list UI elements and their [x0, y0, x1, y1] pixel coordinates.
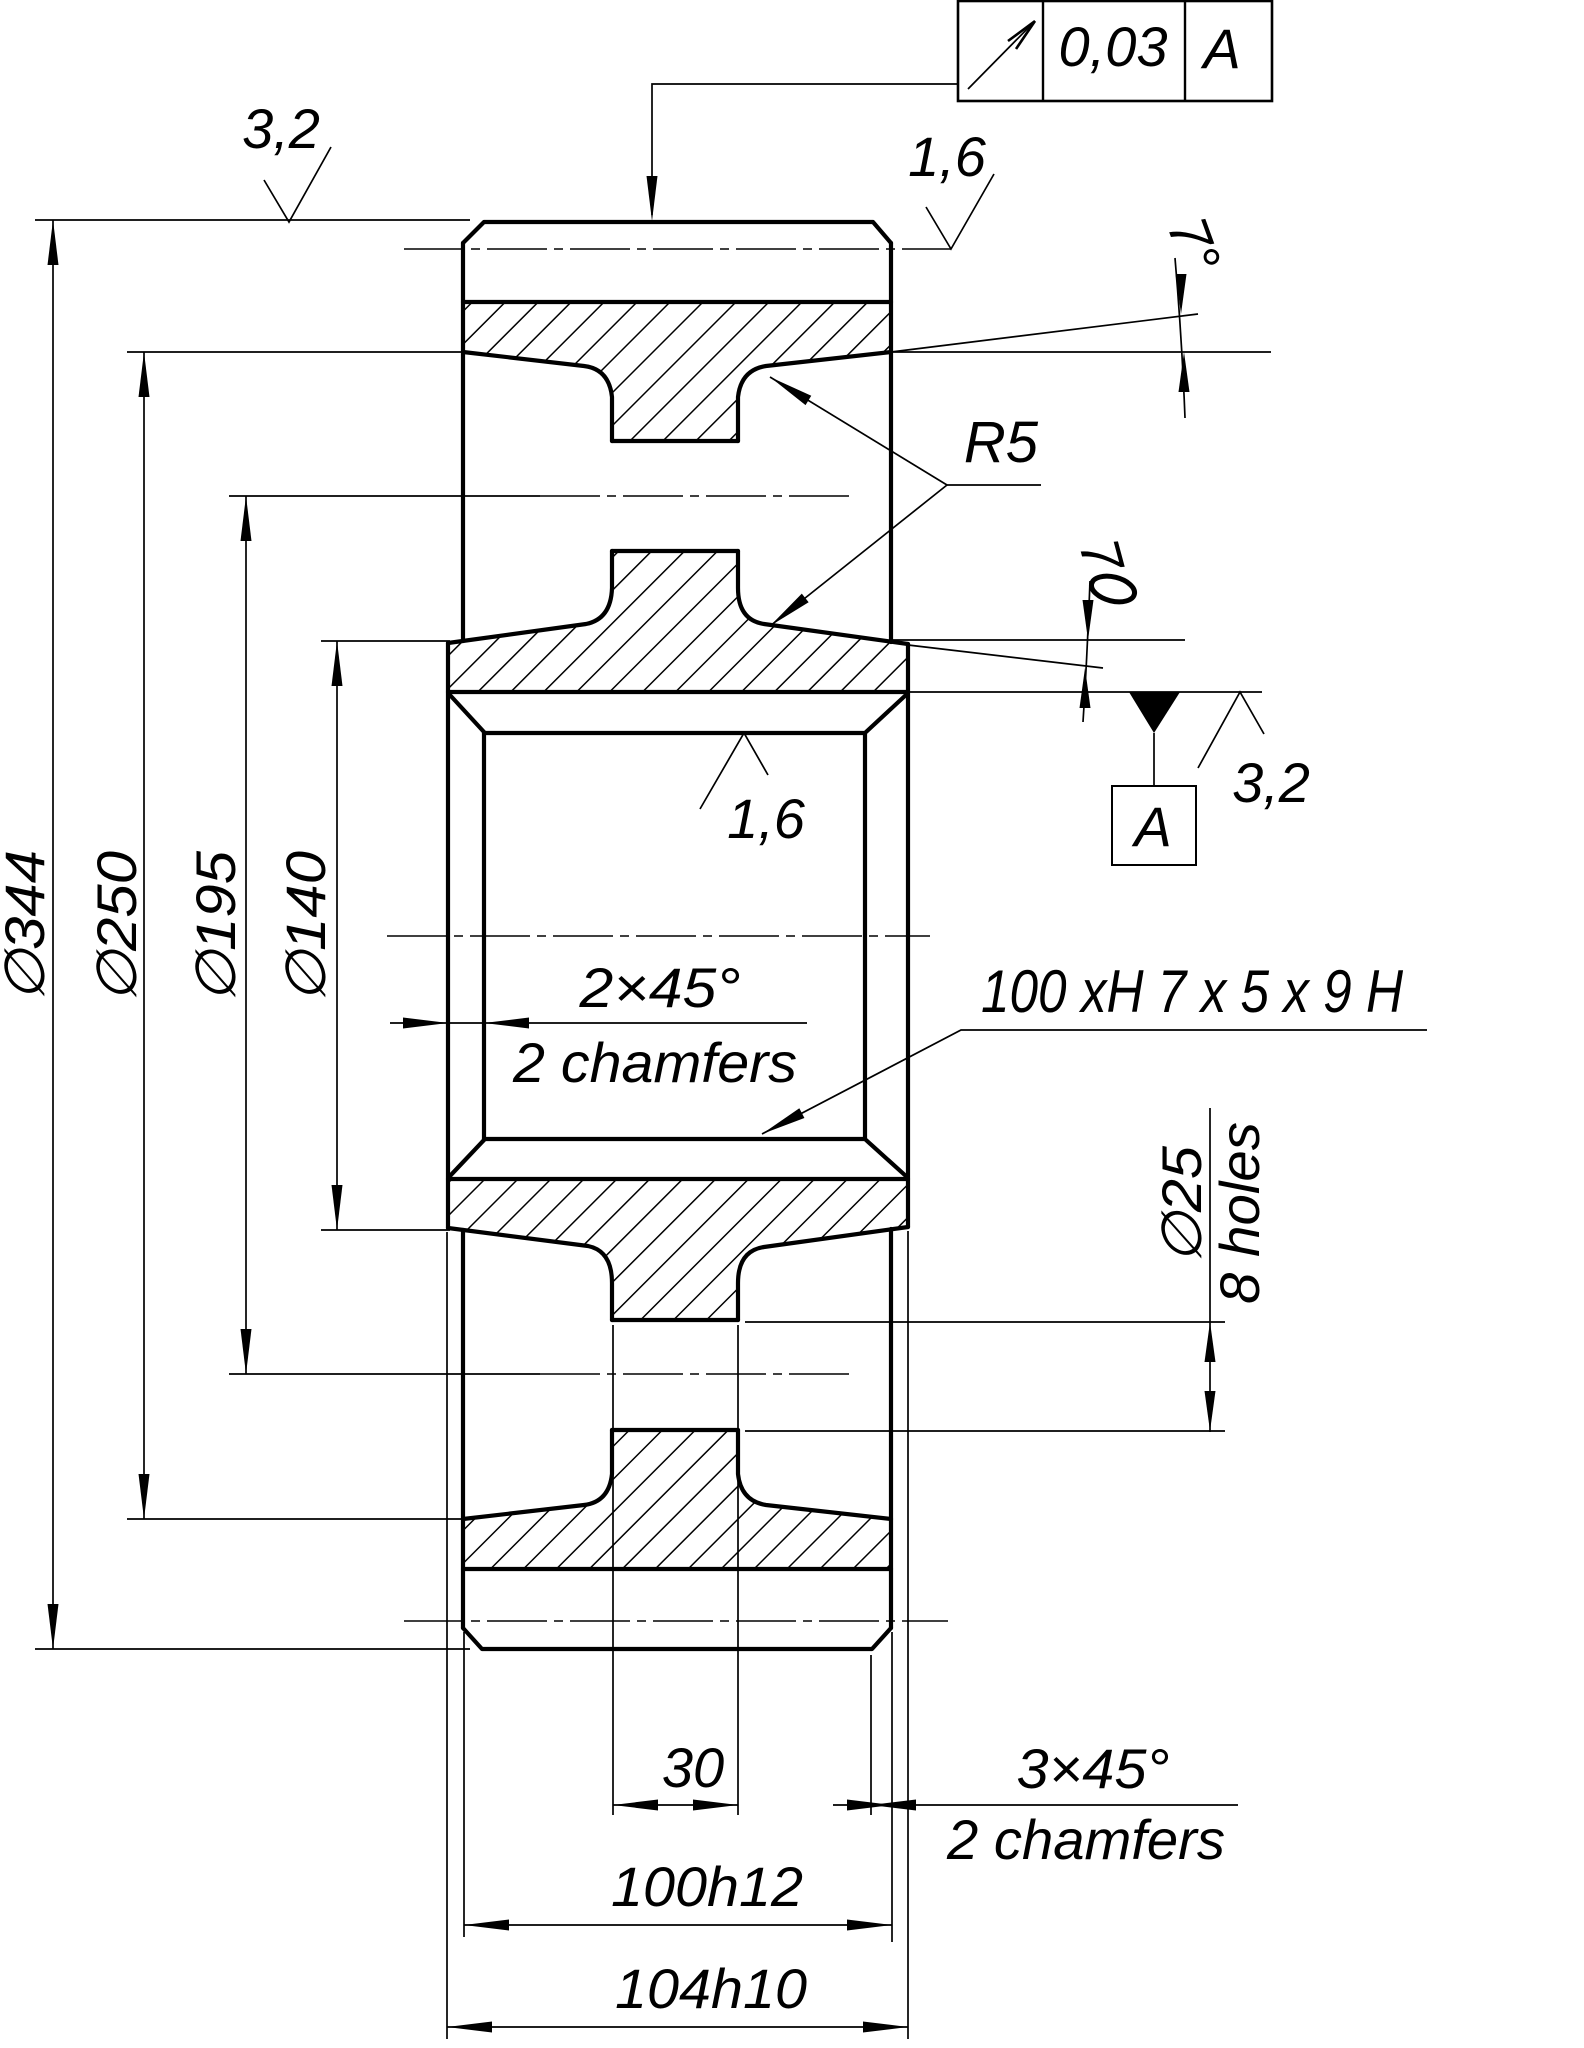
upper lightening hole bottom edge [612, 549, 738, 553]
7deg lower angle: cone extension line [908, 645, 1103, 668]
svg-text:∅25: ∅25 [1150, 1145, 1213, 1264]
lower hole axis solid extension [229, 1373, 540, 1375]
main wheel axis [387, 935, 930, 937]
d250 dimension line [143, 352, 145, 1519]
datum reference surface line [908, 691, 1262, 693]
7deg upper angle: cone extension line [891, 314, 1198, 352]
svg-text:A: A [1200, 17, 1240, 80]
pitch line of lower tooth [404, 1620, 948, 1622]
rim left face upper [461, 243, 465, 641]
arrow d250 top [139, 352, 150, 397]
d25 dimension line [1209, 1108, 1211, 1432]
arrow 7deg upper on cone line [1176, 274, 1187, 314]
svg-text:30: 30 [662, 1736, 724, 1799]
d195 dimension line [245, 496, 247, 1374]
svg-text:∅344: ∅344 [0, 850, 56, 1002]
d344 top extension line [35, 219, 470, 221]
bore end wall left [482, 733, 486, 1139]
lower lightening hole bottom edge [612, 1428, 738, 1432]
lower hole axis / d195 extension dashed part [540, 1373, 852, 1375]
datum letter box [1112, 786, 1196, 865]
web left wall lower with R5 fillet into rim undercut cone [463, 1430, 612, 1519]
d25 extension line lower [745, 1430, 1225, 1432]
web left wall with R5 fillet into hub cone left [448, 551, 612, 643]
d140 bottom extension line [321, 1229, 450, 1231]
arrow 30 left [613, 1800, 658, 1811]
bore chamfer upper left [449, 694, 484, 732]
spline designation leader [762, 1030, 1427, 1134]
upper lightening hole top edge [612, 439, 738, 443]
feature control frame (circular runout 0,03 A) [958, 1, 1272, 101]
svg-text:1,6: 1,6 [908, 125, 987, 188]
arrow spline leader [759, 1108, 804, 1139]
svg-text:100h12: 100h12 [611, 1855, 803, 1918]
104h10 extension line right [907, 1231, 909, 2039]
d250 bottom extension line [127, 1518, 463, 1520]
arrow 3x45 crossing right [847, 1800, 892, 1811]
svg-text:0,03: 0,03 [1059, 15, 1168, 78]
arrow d195 bottom [241, 1329, 252, 1374]
svg-text:104h10: 104h10 [615, 1957, 807, 2020]
runout symbol open arrowhead [1008, 21, 1035, 49]
lower lightening hole top edge [612, 1318, 738, 1322]
spline major diameter line upper [448, 690, 908, 694]
svg-text:8 holes: 8 holes [1208, 1122, 1271, 1304]
rim undercut cone right upper with R5 fillet into web [738, 352, 891, 441]
arrow 104h10 right [863, 2022, 908, 2033]
arrow d195 top [241, 496, 252, 541]
roughness check 3,2 on hub face line [1198, 692, 1264, 768]
arrow d25 bottom [1205, 1391, 1216, 1431]
svg-text:3×45°: 3×45° [1017, 1737, 1170, 1800]
roughness check 3,2 on tooth tip extension [264, 147, 331, 222]
R5 leader shoulder [947, 484, 1041, 486]
arrow d250 bottom [139, 1474, 150, 1519]
3x45 chamfer extension line [870, 1655, 872, 1815]
7deg lower angle: dimension arc [1083, 581, 1090, 722]
svg-text:100 xH 7 x 5 x 9 H: 100 xH 7 x 5 x 9 H [981, 958, 1404, 1025]
hub right face [906, 644, 910, 1227]
upper hole axis / d195 extension dashed part [540, 495, 855, 497]
svg-text:∅140: ∅140 [274, 851, 337, 1003]
hub cone right lower with R5 fillet into web [738, 1227, 908, 1320]
arrow d140 bottom [332, 1185, 343, 1230]
arrow 3x45 crossing left [871, 1800, 916, 1811]
arrow d25 top [1205, 1322, 1216, 1362]
7deg lower angle: horizontal reference line [893, 639, 1185, 641]
section hatching: lower rim ring and web below lower hole [463, 1430, 891, 1569]
d140 top extension line [321, 640, 450, 642]
center lines [387, 249, 951, 1621]
spline bore top surface [484, 731, 865, 735]
arrow 2x45 left [403, 1018, 448, 1029]
web width 30 extension line left [612, 1325, 614, 1815]
datum filled triangle [1129, 692, 1180, 733]
bore end wall right [863, 733, 867, 1139]
arrow 7deg lower on reference line [1083, 600, 1094, 640]
frame border [958, 1, 1272, 101]
d25 extension line upper [745, 1321, 1225, 1323]
svg-text:3,2: 3,2 [242, 97, 320, 160]
arrow d344 top [48, 220, 59, 265]
svg-text:2×45°: 2×45° [578, 956, 740, 1019]
d250 top extension line [127, 351, 463, 353]
arrow 104h10 left [447, 2022, 492, 2033]
datum feature A [908, 692, 1262, 865]
spline major diameter line lower [448, 1177, 908, 1181]
100h12 dimension line [464, 1924, 892, 1926]
pitch line of upper tooth [404, 248, 951, 250]
bore chamfer upper right [866, 694, 907, 732]
arrow R5 lower fillet [767, 594, 809, 631]
frame divider 1 [1042, 1, 1044, 101]
arrow R5 upper fillet [767, 372, 811, 405]
arrow d344 bottom [48, 1604, 59, 1649]
arrow runout leader [647, 176, 658, 221]
upper hole axis solid extension [229, 495, 540, 497]
104h10 extension line left [446, 1232, 448, 2039]
svg-text:∅195: ∅195 [184, 850, 247, 1003]
7deg upper angle: horizontal reference line [891, 351, 1271, 353]
svg-text:A: A [1131, 795, 1171, 858]
rim right face upper [889, 243, 893, 642]
web right wall with R5 fillet into hub cone right [738, 551, 908, 644]
svg-text:∅250: ∅250 [85, 851, 148, 1003]
hub cone left lower with R5 fillet into web [448, 1228, 612, 1320]
R5 leader to lower fillet [770, 485, 947, 626]
svg-text:R5: R5 [964, 410, 1039, 475]
rim undercut cone left upper with R5 fillet into web [463, 352, 612, 441]
datum stem [1153, 733, 1155, 786]
d344 dimension line [52, 220, 54, 1649]
2x45 chamfer dimension line [390, 1022, 807, 1024]
roughness check 1,6 on pitch line [926, 174, 994, 249]
degree ellipse of lower 7deg label [1089, 572, 1137, 606]
section hatching: web below upper hole and upper hub band [448, 551, 908, 692]
rim left face lower [461, 1230, 465, 1628]
arrow 30 right [693, 1800, 738, 1811]
arrow 2x45 right [484, 1018, 529, 1029]
tooth root line lower [463, 1567, 891, 1571]
bore chamfer lower left [449, 1140, 484, 1177]
svg-text:1,6: 1,6 [727, 787, 806, 850]
arrow 7deg lower on cone line [1080, 668, 1091, 708]
bore chamfer lower right [866, 1140, 907, 1177]
surface roughness symbols [264, 147, 1264, 809]
gear body outline [448, 222, 908, 1649]
rim right face lower [889, 1229, 893, 1628]
leader to runout tolerance frame [652, 84, 958, 215]
web width 30 dimension line [613, 1804, 738, 1806]
arrow 7deg upper on reference line [1179, 352, 1190, 392]
runout symbol shaft [968, 21, 1035, 89]
104h10 dimension line [447, 2026, 908, 2028]
d140 dimension line [336, 641, 338, 1230]
7deg upper angle: dimension arc [1175, 258, 1185, 418]
tooth tip top face with chamfers [463, 222, 891, 243]
dimension arrowheads [48, 176, 1216, 2033]
frame divider 2 [1184, 1, 1186, 101]
arrow 100h12 left [464, 1920, 509, 1931]
R5 leader to upper fillet [770, 377, 947, 485]
svg-text:3,2: 3,2 [1232, 751, 1310, 814]
section hatching: lower hub band and web above lower hole [448, 1179, 908, 1320]
web width 30 extension line right [737, 1325, 739, 1815]
section hatching: upper rim ring and web above hole [448, 302, 908, 1569]
d344 bottom extension line [35, 1648, 470, 1650]
hub left face [446, 643, 450, 1228]
roughness check 1,6 on spline bore surface [700, 733, 768, 809]
arrow d140 top [332, 641, 343, 686]
100h12 extension line left [463, 1632, 465, 1937]
arrow 100h12 right [847, 1920, 892, 1931]
100h12 extension line right [891, 1632, 893, 1942]
spline bore bottom surface [484, 1137, 865, 1141]
svg-text:2 chamfers: 2 chamfers [946, 1808, 1225, 1871]
svg-text:2 chamfers: 2 chamfers [512, 1031, 797, 1094]
tooth tip bottom face with chamfers [463, 1628, 891, 1649]
tooth root line upper [463, 300, 891, 304]
web right wall lower with R5 fillet into rim undercut cone [738, 1430, 891, 1519]
3x45 chamfer dimension line [833, 1804, 1238, 1806]
